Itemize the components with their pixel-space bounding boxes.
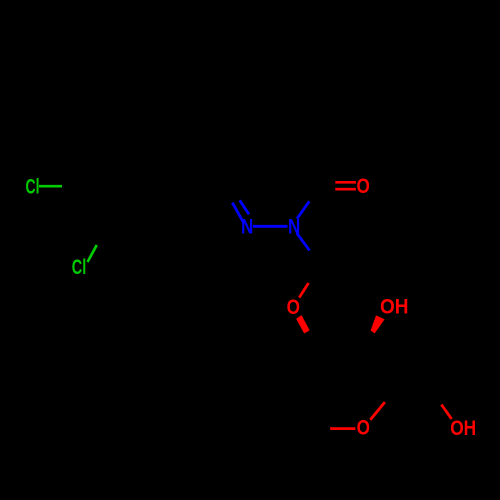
wedge bond OH to C2'' (red half) bbox=[371, 315, 385, 333]
svg-text:O: O bbox=[357, 175, 370, 198]
bond C3=O bottom line (red half) bbox=[335, 188, 356, 191]
svg-text:OH: OH bbox=[380, 296, 409, 319]
bond N2-C1' (blue half) bbox=[297, 233, 310, 250]
bond N1-N2 bbox=[253, 225, 288, 228]
bond C1'-O glycosidic (red half) bbox=[299, 283, 308, 298]
svg-text:O: O bbox=[357, 417, 370, 440]
wedge bond O glycosidic to C3'' (red half) bbox=[296, 315, 310, 333]
bond O ring-C1'' (red half) bbox=[370, 402, 385, 420]
bond C3=O top line (red half) bbox=[335, 181, 356, 184]
bond C6=N1 main line (blue half) bbox=[232, 203, 244, 224]
bond C5''-O ring (red half) bbox=[330, 427, 355, 430]
svg-text:OH: OH bbox=[450, 417, 476, 440]
bond C6''-OH (red half) bbox=[441, 405, 451, 419]
svg-text:Cl: Cl bbox=[72, 256, 87, 279]
bond Cl2-C3 (green half) bbox=[88, 245, 97, 262]
svg-text:Cl: Cl bbox=[26, 176, 40, 199]
svg-text:O: O bbox=[287, 296, 300, 319]
bond N2-C3 (blue half) bbox=[297, 201, 309, 218]
bond Cl1-C4 (green half) bbox=[39, 185, 62, 188]
bond C6=N1 inner line (blue half) bbox=[240, 200, 249, 214]
